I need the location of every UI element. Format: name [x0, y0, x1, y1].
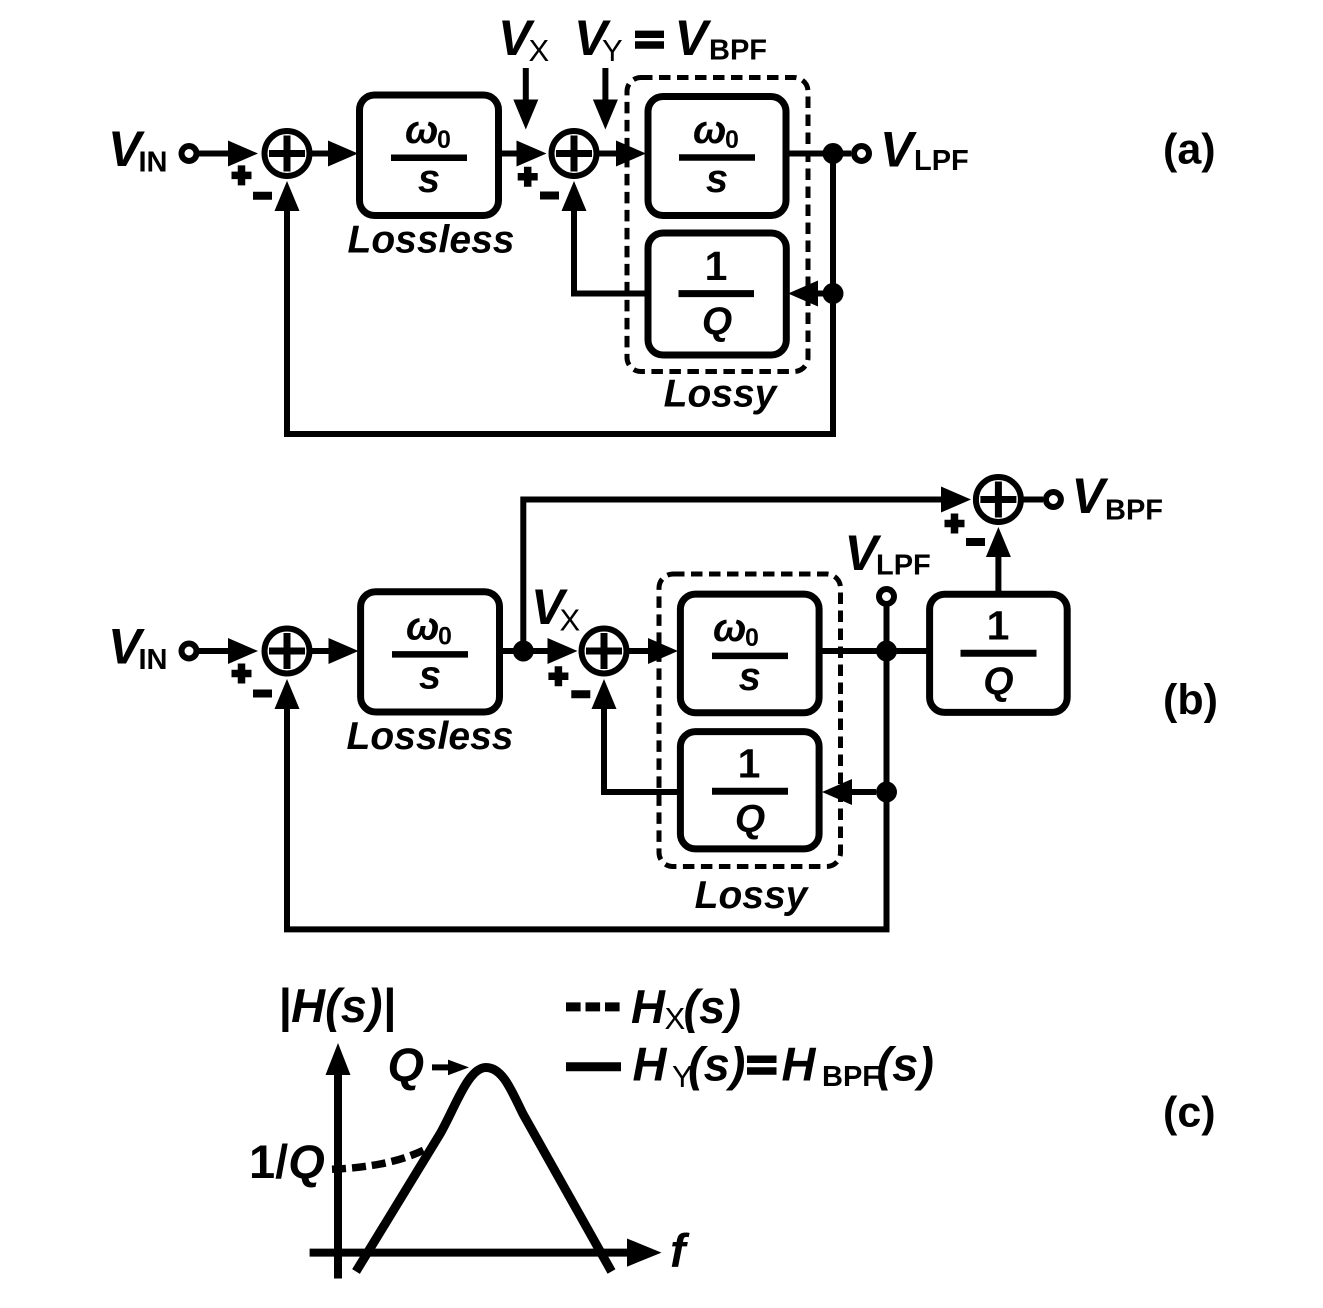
svg-text:0: 0	[438, 623, 452, 651]
wire S3 to output terminal (b)	[1021, 497, 1043, 503]
wire S2 to lossy integrator (b)	[627, 638, 679, 664]
minus sign at S1 (a)	[253, 192, 272, 200]
minus sign at S1 (b)	[253, 690, 272, 698]
svg-text:BPF: BPF	[709, 35, 767, 67]
output block 1/Q (b)	[930, 594, 1068, 712]
svg-text:Lossy: Lossy	[695, 874, 810, 917]
svg-text:Y: Y	[602, 33, 623, 68]
wire lossy integrator to node VLPF (b)	[819, 648, 930, 654]
svg-text:Q: Q	[702, 301, 732, 344]
node label VIN (b)	[108, 619, 168, 677]
svg-text:BPF: BPF	[822, 1061, 880, 1093]
summing junction S1 (b)	[265, 629, 310, 674]
svg-text:s: s	[706, 157, 728, 201]
svg-text:ω: ω	[713, 606, 746, 650]
plus sign at S2 (b)	[548, 666, 568, 686]
node junction at VLPF (a)	[823, 143, 844, 164]
wire integrator to output node (a)	[786, 151, 851, 157]
wire 1/Q output to S2 feedback (a)	[562, 181, 649, 294]
summing junction S2 (b)	[582, 629, 627, 674]
wire S2 to lossy integrator (a)	[597, 141, 647, 167]
integrator block w0/s lossy (b)	[680, 594, 819, 713]
minus sign at S2 (b)	[571, 690, 590, 698]
svg-text:1: 1	[738, 741, 761, 787]
arrow feedback into lossy 1/Q (b)	[822, 779, 876, 805]
svg-text:Lossless: Lossless	[347, 715, 514, 758]
wire Lossless to node VX (b)	[500, 648, 550, 654]
bottom feedback loop wire (a)	[275, 181, 834, 434]
node label VY = VBPF (a)	[574, 10, 767, 68]
node junction VX (b)	[513, 641, 534, 662]
svg-text:ω: ω	[406, 605, 439, 649]
wire Lossless to summer S2 (a)	[499, 141, 547, 167]
node label VIN (a)	[108, 121, 168, 179]
node label VX (a)	[498, 10, 550, 68]
feedforward wire VX to summer S3 (b)	[523, 487, 971, 652]
svg-text:(s): (s)	[684, 980, 741, 1033]
svg-text:0: 0	[725, 126, 739, 154]
svg-text:IN: IN	[139, 644, 168, 676]
summing junction S2 (a)	[552, 131, 597, 176]
svg-text:LPF: LPF	[876, 550, 931, 582]
output terminal VBPF (b)	[1046, 492, 1061, 507]
svg-text:Q: Q	[983, 660, 1013, 703]
svg-text:1: 1	[705, 243, 728, 289]
node label VBPF (b)	[1072, 468, 1164, 527]
svg-text:0: 0	[745, 624, 759, 652]
legend solid sample (c)	[566, 1062, 621, 1071]
svg-text:H: H	[633, 1038, 668, 1091]
y axis (c)	[326, 1043, 351, 1279]
wire input to summer S1 (b)	[199, 638, 258, 664]
svg-text:BPF: BPF	[1105, 495, 1163, 527]
input terminal (a)	[182, 146, 197, 161]
wire 1/Q up to summer S3 (b)	[986, 527, 1011, 594]
svg-text:1/Q: 1/Q	[249, 1135, 325, 1188]
plus sign at S1 (a)	[232, 165, 252, 185]
wire S1 to Lossless block (b)	[310, 638, 359, 664]
legend label HY(s) = HBPF(s) (c)	[633, 1038, 934, 1095]
svg-text:Lossy: Lossy	[664, 373, 779, 416]
damping block 1/Q lossy (a)	[648, 233, 786, 355]
plus sign at S3 (b)	[945, 514, 965, 534]
integrator block w0/s Lossless (b)	[361, 592, 500, 712]
wire S1 to Lossless block (a)	[310, 141, 359, 167]
svg-text:1: 1	[987, 603, 1010, 649]
legend label HX(s) (c)	[631, 980, 741, 1036]
node junction VLPF (b)	[876, 641, 897, 662]
svg-text:s: s	[418, 157, 440, 201]
node label VLPF (a)	[880, 122, 969, 178]
integrator block w0/s lossy (a)	[648, 97, 786, 216]
svg-text:s: s	[419, 654, 441, 698]
node label VX (b)	[531, 579, 581, 638]
svg-text:X: X	[665, 1001, 686, 1036]
svg-text:Q: Q	[735, 798, 765, 841]
summing junction S1 (a)	[265, 131, 310, 176]
svg-text:Lossless: Lossless	[348, 219, 515, 262]
svg-text:LPF: LPF	[914, 145, 969, 177]
svg-text:ω: ω	[405, 108, 438, 152]
svg-text:V: V	[675, 10, 712, 66]
dashed box Lossy (a)	[627, 78, 808, 372]
plus sign at S2 (a)	[518, 167, 538, 187]
svg-text:(c): (c)	[1163, 1089, 1216, 1137]
svg-text:(a): (a)	[1163, 126, 1216, 174]
annotation arrow VY down (a)	[593, 68, 618, 130]
svg-text:|H(s)|: |H(s)|	[278, 979, 396, 1032]
wire lossy 1/Q to S2 feedback (b)	[592, 679, 681, 792]
arrow node VX to summer S2 (b)	[548, 638, 578, 664]
svg-text:H: H	[782, 1038, 817, 1091]
minus sign at S2 (a)	[540, 192, 559, 200]
svg-text:ω: ω	[693, 108, 726, 152]
svg-text:X: X	[560, 603, 581, 638]
svg-text:V: V	[1072, 468, 1109, 524]
legend dashed sample (c)	[566, 1002, 621, 1011]
svg-text:IN: IN	[139, 147, 168, 179]
wire input to summer S1 (a)	[199, 141, 258, 167]
minus sign at S3 (b)	[966, 538, 985, 546]
feedback wire VLPF node down (b)	[275, 651, 887, 929]
integrator block w0/s Lossless (a)	[360, 95, 499, 216]
svg-text:H: H	[631, 980, 666, 1033]
svg-text:(b): (b)	[1163, 676, 1218, 724]
svg-text:Q: Q	[388, 1038, 425, 1091]
feedback wire node down to 1/Q (a)	[788, 154, 833, 307]
svg-text:s: s	[739, 655, 761, 699]
svg-text:V: V	[880, 122, 917, 178]
svg-text:(s): (s)	[877, 1038, 934, 1091]
peak pointer arrow (c)	[432, 1060, 469, 1076]
terminal VLPF (b)	[879, 589, 894, 604]
x axis (c)	[310, 1239, 662, 1267]
svg-text:0: 0	[437, 126, 451, 154]
svg-text:X: X	[529, 33, 550, 68]
output terminal VLPF (a)	[854, 146, 869, 161]
solid response curve HY (c)	[356, 1068, 612, 1272]
wire node up to VLPF terminal (b)	[884, 605, 890, 646]
damping block 1/Q lossy (b)	[680, 732, 819, 849]
plus sign at S1 (b)	[232, 664, 252, 684]
dashed response curve HX (c)	[332, 1149, 426, 1169]
summing junction S3 VBPF (b)	[976, 477, 1021, 522]
annotation arrow VX down (a)	[513, 68, 538, 130]
node junction on feedback (b)	[876, 782, 897, 803]
svg-text:(s): (s)	[688, 1038, 745, 1091]
dashed box Lossy (b)	[659, 574, 841, 867]
node label VLPF (b)	[845, 525, 931, 582]
input terminal (b)	[182, 644, 197, 659]
node junction on feedback (a)	[823, 283, 844, 304]
